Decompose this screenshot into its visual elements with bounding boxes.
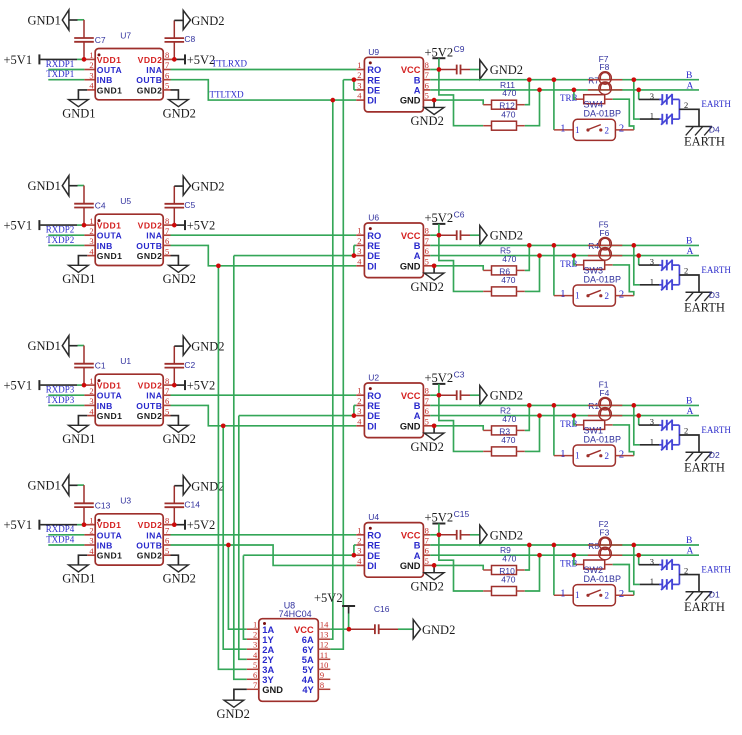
junction VDD2 / +5V2: [163, 384, 184, 386]
svg-text:U9: U9: [368, 47, 379, 57]
svg-text:3Y: 3Y: [262, 675, 274, 685]
resistor R11 470 (pull-down B): [434, 80, 529, 110]
svg-text:TRB: TRB: [560, 559, 578, 569]
svg-text:2: 2: [684, 266, 688, 276]
svg-text:2: 2: [357, 236, 361, 246]
resistor R2 470 (pull-down B): [434, 405, 529, 435]
svg-text:3: 3: [357, 80, 361, 90]
svg-text:2: 2: [357, 536, 361, 546]
svg-text:6: 6: [425, 246, 429, 256]
wire U2.RE/DE tie: [239, 405, 365, 415]
svg-text:4: 4: [89, 246, 94, 256]
hex inverter U8 74HC04: [247, 601, 330, 702]
svg-text:6A: 6A: [302, 635, 314, 645]
capacitor C13: [74, 485, 110, 525]
net label A: [687, 547, 694, 557]
svg-text:2: 2: [684, 100, 688, 110]
junction line A / protector branch: [636, 553, 641, 558]
svg-text:5: 5: [253, 660, 257, 670]
wire ch4 RE/DE trunk (U8 1Y output): [243, 555, 246, 639]
wire B to switch SW1 pin 1: [554, 405, 573, 455]
svg-text:+5V2: +5V2: [187, 379, 216, 393]
net label TXDP4 and wire to pin 3: [46, 534, 95, 545]
power symbol +5V2 (at U6 VCC): [423, 211, 453, 235]
svg-text:TTLTXD: TTLTXD: [210, 89, 245, 99]
svg-text:D3: D3: [709, 290, 720, 300]
svg-text:5Y: 5Y: [302, 665, 314, 675]
svg-text:TRB: TRB: [560, 259, 578, 269]
junction +5V1 / VDD1: [82, 522, 87, 527]
svg-text:VDD1: VDD1: [97, 221, 122, 231]
svg-text:2: 2: [684, 565, 688, 575]
junction DI net tap to inverter input: [330, 98, 335, 103]
svg-text:F3: F3: [599, 527, 609, 537]
junction +5V1 / VDD1: [82, 383, 87, 388]
svg-text:GND1: GND1: [28, 479, 61, 493]
svg-text:A: A: [414, 551, 421, 561]
ground GND2 (below U5 pin 5): [163, 256, 196, 286]
svg-text:470: 470: [502, 254, 516, 264]
surge protector D2 pin 3 wire: [639, 416, 660, 427]
junction line B / protector branch: [631, 243, 636, 248]
ground GND2 (below U3 pin 5): [163, 555, 196, 585]
digital isolator U1: [89, 356, 169, 426]
svg-text:6: 6: [425, 546, 429, 556]
surge protector D4 (upper element): [659, 94, 679, 105]
junction line A / terminator branch: [572, 88, 577, 93]
svg-text:GND2: GND2: [411, 579, 444, 593]
svg-text:1: 1: [253, 620, 257, 630]
wire line A (from U4 pin 6): [423, 554, 699, 556]
svg-text:6: 6: [253, 670, 257, 680]
wire line B (from U4 pin 7): [423, 544, 699, 546]
svg-text:4A: 4A: [302, 675, 314, 685]
wire ch4 DI trunk (to U8 1A): [228, 545, 246, 629]
svg-text:GND: GND: [400, 96, 421, 106]
power flag GND1 (top, channel U1): [28, 336, 85, 356]
power flag GND2 (top right of U5): [174, 176, 224, 195]
resistor R1 (terminator): [574, 401, 634, 455]
svg-text:1: 1: [650, 436, 654, 446]
svg-text:RO: RO: [367, 231, 381, 241]
svg-text:GND1: GND1: [62, 272, 95, 286]
net label TXDP2 and wire to pin 3: [46, 235, 95, 246]
junction line B / switch branch: [552, 243, 557, 248]
net label TXDP1 and wire to pin 3: [46, 69, 95, 80]
svg-text:2A: 2A: [262, 645, 274, 655]
svg-text:GND: GND: [400, 261, 421, 271]
svg-text:F6: F6: [599, 228, 609, 238]
junction line A / pull-up resistor: [537, 253, 542, 258]
svg-text:470: 470: [501, 109, 515, 119]
junction DI net tap to inverter input: [226, 543, 231, 548]
ground GND2 (U8 pin 7): [217, 689, 250, 721]
surge protector D1 (upper element): [659, 559, 679, 570]
net label A: [687, 81, 694, 91]
svg-text:3: 3: [650, 257, 654, 267]
svg-text:GND2: GND2: [217, 707, 250, 721]
junction RE/DE tie: [352, 553, 357, 558]
capacitor C3: [439, 370, 470, 401]
power flag GND2 (top right of U3): [174, 476, 224, 495]
svg-text:3: 3: [357, 406, 361, 416]
wire U3.OUTB to U4.DI: [163, 545, 364, 565]
svg-text:C7: C7: [95, 35, 106, 45]
capacitor C5: [165, 186, 196, 225]
capacitor C1: [74, 346, 106, 386]
wire ch3 DI trunk (to U8 2A): [223, 426, 247, 649]
switch SW1 DA-01BP: [560, 425, 624, 466]
svg-text:GND2: GND2: [163, 272, 196, 286]
svg-text:RXDP4: RXDP4: [46, 524, 75, 534]
svg-text:INA: INA: [146, 65, 162, 75]
svg-text:RXDP1: RXDP1: [46, 59, 75, 69]
power flag GND2 (top right of U7): [174, 10, 224, 29]
svg-text:R4: R4: [588, 241, 599, 251]
svg-text:8: 8: [320, 680, 324, 690]
svg-text:1: 1: [650, 111, 654, 121]
svg-text:B: B: [686, 237, 692, 247]
svg-text:GND2: GND2: [163, 572, 196, 586]
svg-text:10: 10: [320, 660, 329, 670]
ground GND2 (below U7 pin 5): [163, 90, 196, 120]
wire U5.INA to U6.RO: [163, 234, 364, 236]
capacitor C9: [439, 44, 470, 75]
power symbol +5V2 (at U2 VCC): [423, 371, 453, 395]
wire TTLTXD trunk (U9.DI to U8 6A): [330, 100, 333, 639]
svg-text:EARTH: EARTH: [684, 460, 725, 474]
svg-text:GND2: GND2: [191, 340, 224, 354]
junction line B / pull-down resistor: [527, 543, 532, 548]
svg-text:RE: RE: [367, 75, 380, 85]
power symbol +5V1 (channel U7): [4, 53, 85, 67]
fuse F8 (line A): [588, 62, 622, 94]
svg-text:5: 5: [425, 256, 429, 266]
svg-text:3: 3: [357, 546, 361, 556]
surge protector D2 (lower element): [659, 439, 679, 450]
svg-text:U1: U1: [120, 356, 131, 366]
surge protector D3 (lower element): [659, 279, 679, 290]
junction line A / terminator branch: [572, 553, 577, 558]
svg-text:C8: C8: [184, 34, 195, 44]
svg-text:GND2: GND2: [137, 411, 163, 421]
svg-text:GND2: GND2: [191, 479, 224, 493]
svg-text:U6: U6: [368, 213, 379, 223]
svg-text:GND1: GND1: [97, 551, 123, 561]
svg-text:VCC: VCC: [401, 231, 421, 241]
svg-text:R1: R1: [588, 401, 599, 411]
svg-text:U4: U4: [368, 512, 379, 522]
svg-text:EARTH: EARTH: [701, 565, 731, 575]
power symbol +5V2 (right of U1): [185, 379, 215, 393]
svg-text:3A: 3A: [262, 665, 274, 675]
svg-text:GND: GND: [262, 685, 283, 695]
svg-text:U3: U3: [120, 496, 131, 506]
wire VDD1 pin 1 stub: [84, 224, 95, 226]
svg-text:GND: GND: [400, 421, 421, 431]
svg-text:8: 8: [425, 60, 429, 70]
RS-485 transceiver U6: [357, 213, 429, 278]
svg-text:DI: DI: [367, 561, 376, 571]
svg-text:1: 1: [560, 123, 565, 134]
svg-text:C9: C9: [454, 44, 465, 54]
svg-text:R7: R7: [588, 76, 599, 86]
earth symbol D2: [684, 450, 725, 474]
capacitor C7: [74, 20, 106, 60]
fuse F3 (line A): [588, 527, 622, 559]
junction line B / pull-down resistor: [527, 77, 532, 82]
wire U9.RE/DE tie: [343, 80, 364, 90]
svg-text:A: A: [687, 407, 694, 417]
svg-text:DA-01BP: DA-01BP: [584, 274, 622, 284]
svg-text:2: 2: [619, 289, 624, 300]
fuse F7 (line B): [588, 54, 622, 84]
fuse F4 (line A): [588, 388, 622, 420]
svg-text:OUTA: OUTA: [97, 530, 123, 540]
svg-text:3: 3: [89, 236, 93, 246]
svg-text:TTLRXD: TTLRXD: [212, 59, 248, 69]
junction VDD2 / +5V2: [172, 57, 177, 62]
svg-text:4Y: 4Y: [302, 685, 314, 695]
svg-text:GND2: GND2: [163, 432, 196, 446]
svg-text:1: 1: [575, 125, 580, 135]
svg-text:VDD2: VDD2: [138, 520, 163, 530]
net label A: [687, 407, 694, 417]
svg-text:R8: R8: [588, 541, 599, 551]
junction VDD2 / +5V2: [163, 58, 184, 60]
svg-text:INB: INB: [97, 241, 113, 251]
surge protector D4 pin 1 wire: [634, 80, 660, 121]
svg-text:DA-01BP: DA-01BP: [584, 574, 622, 584]
svg-text:1: 1: [357, 386, 361, 396]
svg-text:1: 1: [650, 276, 654, 286]
wire U6.RE/DE tie: [234, 245, 365, 255]
svg-text:TXDP1: TXDP1: [46, 69, 74, 79]
svg-text:A: A: [687, 247, 694, 257]
junction line A / pull-up resistor: [537, 413, 542, 418]
svg-text:14: 14: [320, 620, 329, 630]
net label B: [686, 237, 692, 247]
svg-text:2: 2: [619, 589, 624, 600]
svg-text:GND1: GND1: [28, 339, 61, 353]
power symbol +5V2 (right of U7): [185, 53, 215, 67]
junction line A / protector branch: [636, 413, 641, 418]
digital isolator U5: [89, 196, 169, 266]
power flag GND2 (top right of U1): [174, 336, 224, 355]
svg-text:GND2: GND2: [422, 623, 455, 637]
svg-text:3: 3: [650, 556, 654, 566]
svg-text:9: 9: [320, 670, 324, 680]
switch SW4 DA-01BP: [560, 100, 624, 141]
svg-text:7: 7: [425, 70, 429, 80]
svg-text:INB: INB: [97, 75, 113, 85]
power flag GND2 (right of C15): [470, 525, 523, 544]
wire line B (from U2 pin 7): [423, 404, 699, 406]
svg-text:2: 2: [357, 70, 361, 80]
svg-text:VCC: VCC: [401, 65, 421, 75]
svg-text:2: 2: [89, 60, 93, 70]
capacitor C6: [439, 210, 470, 241]
wire VDD1 pin 1 stub: [84, 384, 95, 386]
svg-text:1: 1: [89, 376, 93, 386]
power flag GND2 (right of C16): [398, 620, 455, 639]
svg-text:11: 11: [320, 650, 328, 660]
svg-text:C4: C4: [95, 201, 106, 211]
wire B to switch SW4 pin 1: [554, 80, 573, 130]
net label B: [686, 536, 692, 546]
svg-text:1: 1: [357, 60, 361, 70]
svg-text:VDD1: VDD1: [97, 381, 122, 391]
svg-text:INB: INB: [97, 541, 113, 551]
junction line B / pull-down resistor: [527, 243, 532, 248]
svg-text:EARTH: EARTH: [701, 99, 731, 109]
wire U4.RE/DE tie: [243, 545, 364, 555]
svg-text:5: 5: [425, 91, 429, 101]
wire B to switch SW3 pin 1: [554, 245, 573, 295]
svg-text:VDD1: VDD1: [97, 55, 122, 65]
resistor R12 470 (pull-up A): [439, 70, 540, 131]
svg-text:EARTH: EARTH: [684, 600, 725, 614]
net label EARTH: [701, 565, 731, 575]
junction line A / terminator branch: [572, 253, 577, 258]
junction line B / switch branch: [552, 403, 557, 408]
svg-text:+5V2: +5V2: [187, 518, 216, 532]
junction line B / protector branch: [631, 77, 636, 82]
svg-text:12: 12: [320, 640, 329, 650]
resistor R10 470 (pull-up A): [439, 535, 540, 596]
surge protector D3 (upper element): [659, 260, 679, 271]
svg-text:470: 470: [501, 435, 515, 445]
wire ch3 RE/DE trunk (U8 2Y output): [239, 416, 247, 660]
svg-text:4: 4: [89, 546, 94, 556]
svg-text:6: 6: [425, 406, 429, 416]
svg-text:EARTH: EARTH: [701, 265, 731, 275]
svg-text:EARTH: EARTH: [701, 425, 731, 435]
junction RE/DE tie: [352, 77, 357, 82]
svg-text:470: 470: [502, 88, 516, 98]
fuse F2 (line B): [588, 519, 622, 549]
svg-text:7: 7: [253, 680, 257, 690]
svg-text:RE: RE: [367, 401, 380, 411]
svg-text:DI: DI: [367, 261, 376, 271]
svg-text:U5: U5: [120, 196, 131, 206]
ground GND1 (below U5 pin 4): [62, 256, 95, 286]
svg-text:TXDP3: TXDP3: [46, 395, 75, 405]
svg-text:B: B: [414, 541, 421, 551]
svg-text:1: 1: [89, 50, 93, 60]
surge protector D1 (lower element): [659, 579, 679, 590]
ground GND2 (below U6 pin 5): [411, 266, 445, 294]
svg-text:DA-01BP: DA-01BP: [584, 109, 622, 119]
svg-text:INA: INA: [146, 391, 162, 401]
resistor R3 470 (pull-up A): [439, 395, 540, 456]
svg-text:2: 2: [605, 291, 610, 301]
svg-text:OUTB: OUTB: [136, 241, 162, 251]
switch SW2 DA-01BP: [560, 565, 624, 606]
svg-text:VCC: VCC: [401, 391, 421, 401]
switch SW3 DA-01BP: [560, 265, 624, 306]
svg-text:RE: RE: [367, 241, 380, 251]
power symbol +5V2 (at U9 VCC): [423, 45, 453, 69]
RS-485 transceiver U9: [357, 47, 429, 112]
svg-text:F8: F8: [599, 62, 609, 72]
junction line B / pull-down resistor: [527, 403, 532, 408]
capacitor C4: [74, 186, 106, 226]
fuse F5 (line B): [588, 220, 622, 250]
svg-text:1: 1: [357, 226, 361, 236]
power flag GND2 (right of C3): [470, 386, 523, 405]
junction line A / pull-up resistor: [537, 88, 542, 93]
junction line B / protector branch: [631, 543, 636, 548]
resistor R7 (terminator): [574, 76, 634, 130]
svg-text:DI: DI: [367, 421, 376, 431]
junction line A / terminator branch: [572, 413, 577, 418]
power symbol +5V2 (right of U3): [185, 518, 215, 532]
svg-text:VDD2: VDD2: [138, 55, 163, 65]
svg-text:5: 5: [425, 556, 429, 566]
svg-text:2: 2: [605, 125, 610, 135]
svg-text:2: 2: [684, 426, 688, 436]
svg-text:13: 13: [320, 630, 329, 640]
net label B: [686, 397, 692, 407]
wire U7.INA to U9.RO: [163, 59, 364, 70]
svg-text:3: 3: [253, 640, 257, 650]
ground GND2 (below U2 pin 5): [411, 426, 445, 454]
svg-text:RO: RO: [367, 530, 381, 540]
svg-text:2: 2: [605, 591, 610, 601]
svg-text:74HC04: 74HC04: [279, 609, 312, 619]
svg-text:4: 4: [89, 406, 94, 416]
power symbol +5V2 (right of U5): [185, 219, 215, 233]
ground GND2 (below U4 pin 5): [411, 565, 445, 593]
svg-text:GND2: GND2: [411, 114, 444, 128]
svg-text:1: 1: [560, 589, 565, 600]
svg-text:INB: INB: [97, 401, 113, 411]
wire line A (from U2 pin 6): [423, 415, 699, 417]
svg-text:2: 2: [89, 526, 93, 536]
fuse F1 (line B): [588, 380, 622, 410]
junction line A / protector branch: [636, 253, 641, 258]
power symbol +5V1 (channel U1): [4, 379, 85, 393]
power symbol +5V2 (U8 VCC): [314, 591, 355, 629]
net label RXDP4 and wire to pin 2: [46, 524, 95, 535]
wire U1.INA to U2.RO: [163, 394, 364, 396]
fuse F6 (line A): [588, 228, 622, 260]
svg-text:GND2: GND2: [490, 389, 523, 403]
svg-text:+5V1: +5V1: [4, 518, 33, 532]
svg-text:2: 2: [357, 396, 361, 406]
junction GND pin: [432, 563, 437, 568]
wire VDD1 pin 1 stub: [84, 524, 95, 526]
svg-text:1: 1: [575, 291, 580, 301]
svg-text:DI: DI: [367, 96, 376, 106]
svg-text:C13: C13: [95, 500, 111, 510]
svg-text:+5V2: +5V2: [425, 511, 454, 525]
svg-text:D1: D1: [709, 590, 720, 600]
net label A: [687, 247, 694, 257]
junction VCC: [437, 532, 442, 537]
svg-text:VDD2: VDD2: [138, 221, 163, 231]
svg-text:+5V2: +5V2: [425, 45, 454, 59]
surge protector D2 pin 1 wire: [634, 405, 660, 446]
svg-text:INA: INA: [146, 530, 162, 540]
svg-text:B: B: [686, 71, 692, 81]
net label RXDP2 and wire to pin 2: [46, 225, 95, 236]
svg-text:VDD2: VDD2: [138, 381, 163, 391]
svg-text:B: B: [414, 401, 421, 411]
wire B to switch SW2 pin 1: [554, 545, 573, 595]
junction VDD2 / +5V2: [172, 383, 177, 388]
